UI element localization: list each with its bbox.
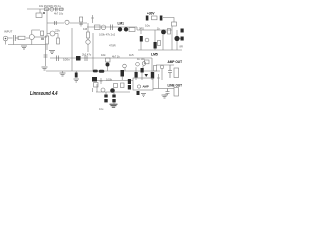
resistor R1b [60,8,64,11]
transistor Q19 [145,38,149,42]
svg-text:1k5: 1k5 [129,53,134,57]
wire rail y92 [96,91,130,93]
resistor R31 [158,41,161,46]
resistor R6 vertical [46,36,49,44]
wire Q4 connections [47,34,58,39]
svg-text:22k: 22k [55,29,60,33]
ground symbol G8 [141,94,146,97]
terminal block [181,29,184,33]
resistor R18 [121,70,125,77]
transistor Q3 [29,35,34,40]
resistor R23 [154,66,157,72]
transistor Q11 [123,64,127,68]
transistor Q10 [106,63,110,67]
capacitor C2 [80,17,83,22]
capacitor C15 ticks [41,38,44,39]
wire mid rail y71 [46,70,160,72]
resistor R20 [141,68,144,73]
resistor R10 [129,28,135,32]
wire [15,37,19,39]
resistor R2 [36,13,42,18]
svg-text:Linnsound 4.4: Linnsound 4.4 [30,91,58,97]
transistor Q18 [160,65,164,69]
wire connections [122,66,143,80]
capacitor C2b [80,24,83,27]
resistor R12 [172,22,177,26]
resistor R30 [121,83,125,88]
ground rail left [8,44,46,46]
wire amp out [156,64,174,66]
capacitor C4 [111,25,113,31]
capacitor C7 [57,56,59,62]
wire vertical x45.5 [45,45,47,67]
wire right block top rail [137,27,172,30]
wire stub x92 [91,15,94,23]
wire vertical x172 [171,26,173,50]
ground symbol G1 [21,46,27,49]
jack J2 [174,68,179,78]
ground symbol G3 [42,67,48,70]
svg-text:AMP OUT: AMP OUT [168,60,183,64]
wire stub x97 [96,84,98,92]
wire vertical x93 [92,33,94,71]
wire Q3 emitter down [31,40,33,45]
resistor R11 [152,16,158,20]
resistor R9 [95,25,101,30]
wire from Q2 [70,22,88,24]
capacitor C5 electrolytic [146,16,149,21]
capacitor C14 ticks [44,55,48,57]
svg-text:AMP: AMP [143,85,149,89]
svg-text:+30V: +30V [147,12,155,16]
svg-text:470R: 470R [109,44,116,48]
wire vertical x152 [151,58,153,80]
capacitor C12 [168,65,172,78]
pot VR2 [92,77,97,82]
transistor Q6 [118,27,122,31]
svg-text:LM1: LM1 [118,22,125,26]
wire second rail [47,22,64,24]
wire to x47 [34,36,47,38]
transistor Q14 [110,88,115,93]
input jack J1 [3,36,8,41]
svg-text:100k: 100k [106,78,113,82]
wire vertical x141 [140,30,142,34]
resistor R15 [168,29,171,35]
resistor R19 [135,72,138,78]
resistor R17 [106,58,111,62]
transistor Q1 [50,7,54,11]
wire [166,32,181,39]
capacitor C10 electrolytic [105,92,107,95]
ground symbol G2 [49,51,55,54]
capacitor C16 electrolytic [128,79,131,84]
svg-text:1M: 1M [83,27,88,31]
wire line-out chain [153,88,158,90]
diode D1 [145,74,149,77]
wire stub left [92,88,94,92]
capacitor C13 [166,89,170,94]
capacitor C17 electrolytic [128,85,131,90]
wire vertical drop from top rail [39,9,41,13]
transistor Q7 [124,27,128,31]
wire mid band rail [87,26,137,28]
transistor Q16 [137,85,140,88]
transistor Q15 [101,88,105,92]
transistor Q12 [136,62,140,66]
svg-text:LINE OUT: LINE OUT [168,84,183,88]
wire line out [158,88,174,90]
svg-text:10u: 10u [145,24,150,28]
ground symbol G4 [60,73,66,76]
resistor R4 [18,36,25,39]
resistor R7 [57,38,60,44]
capacitor C3 [14,35,16,41]
wire rail y80 [96,80,133,82]
resistor R24 [94,83,99,88]
transistor Q5 [86,40,90,44]
wire top-right [163,18,174,23]
wire Q3 collector up [32,30,40,35]
wire upper mid rail y58 [50,57,152,59]
wire jack sleeve [6,41,14,45]
resistor R21 [145,60,150,64]
svg-text:8R: 8R [180,45,183,49]
ground symbol G5 [74,79,80,82]
resistor R25 [114,84,118,88]
resistor R14 [154,42,157,49]
wire input [8,37,13,39]
resistor R1 [45,8,49,11]
wire [26,37,29,39]
capacitor C18 [137,91,140,95]
capacitor C19 ticks [55,21,57,25]
resistor R13 [140,36,143,42]
svg-text:1k 10u: 1k 10u [137,57,145,61]
capacitor C11 electrolytic [113,92,115,104]
resistor R8 vertical stack [87,23,89,32]
transistor Q9 [174,36,179,41]
transistor Q13 [142,62,146,66]
svg-text:4k7 1k: 4k7 1k [112,55,120,59]
resistor R22 [151,72,154,79]
wire stub x158 [157,74,160,89]
wire x47 down [46,44,48,50]
svg-text:INPUT: INPUT [4,30,13,34]
capacitor C9 electrolytic [75,73,78,78]
wire stub [100,78,103,84]
ground symbol G7 [110,104,118,107]
svg-text:LM5: LM5 [151,53,158,57]
node A [43,12,45,14]
node C [99,70,105,73]
jack J3 [174,88,179,97]
svg-text:100k 47k 2n2: 100k 47k 2n2 [99,33,116,37]
ground symbol G9 [162,95,168,98]
resistor R5 [41,31,44,36]
transistor Q8 [161,30,166,35]
pot VR1 [101,25,106,30]
wire right block bottom rail [138,49,182,51]
module block U2 [133,78,153,90]
transistor Q4 [50,31,55,36]
capacitor C6 electrolytic [160,16,163,21]
svg-text:0R5: 0R5 [139,26,144,30]
node B [93,70,98,73]
wire top-left rail [27,8,64,10]
svg-text:10k: 10k [101,53,106,57]
svg-text:10k 2SC945 47k 1u: 10k 2SC945 47k 1u [39,5,62,8]
wire vertical x47 [46,9,48,36]
svg-text:4k7 10u: 4k7 10u [54,12,64,16]
capacitor C1 [56,7,58,11]
transistor Q2 [65,20,69,24]
svg-text:100n: 100n [63,58,70,62]
capacitor C8 [85,56,87,62]
wire long vertical x72 [71,28,73,71]
svg-text:10u: 10u [99,107,104,111]
resistor R16 [76,56,81,61]
